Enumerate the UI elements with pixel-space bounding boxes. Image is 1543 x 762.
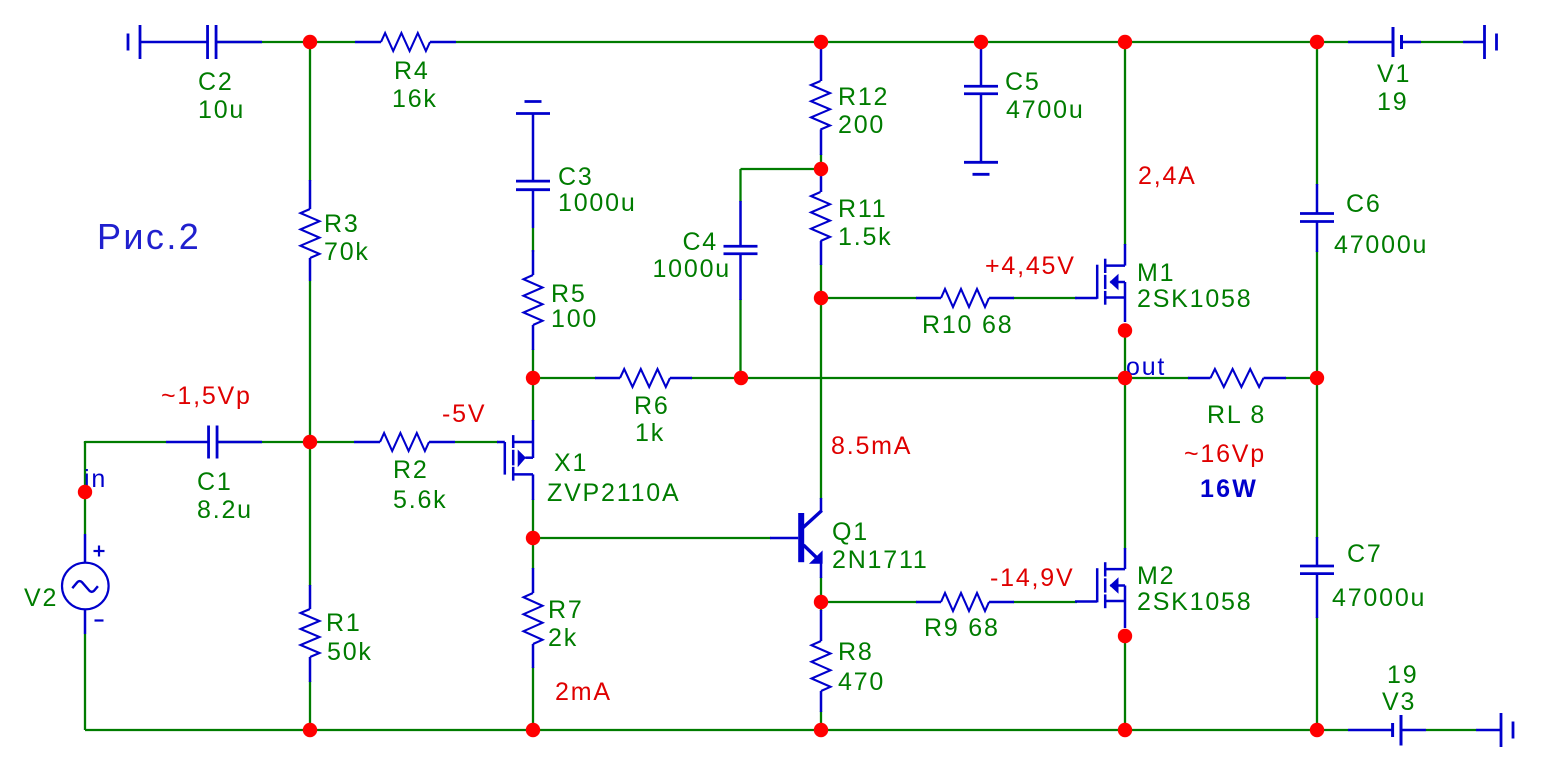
svg-text:1000u: 1000u bbox=[558, 189, 637, 217]
junction bottom rail at C7 bbox=[1310, 723, 1324, 737]
node out label bbox=[1126, 353, 1166, 381]
svg-text:100: 100 bbox=[551, 305, 598, 333]
svg-text:M2: M2 bbox=[1137, 562, 1175, 590]
resistor R1 bbox=[301, 585, 373, 682]
svg-text:5.6k: 5.6k bbox=[393, 486, 447, 514]
resistor R11 bbox=[811, 172, 892, 265]
svg-text:47000u: 47000u bbox=[1334, 231, 1428, 259]
transistor Q1 2N1711 npn bbox=[770, 498, 929, 578]
svg-text:R4: R4 bbox=[394, 57, 430, 85]
capacitor C6 bbox=[1300, 184, 1428, 259]
svg-text:C6: C6 bbox=[1346, 190, 1382, 218]
svg-text:8.2u: 8.2u bbox=[197, 496, 253, 524]
svg-text:2N1711: 2N1711 bbox=[832, 546, 929, 574]
wire X1 drain to Q1 base y=538 bbox=[533, 537, 771, 539]
node in label and junction bbox=[78, 465, 107, 499]
svg-text:R3: R3 bbox=[324, 210, 360, 238]
svg-text:-5V: -5V bbox=[442, 400, 486, 428]
junction bottom rail at M2 bbox=[1118, 723, 1132, 737]
svg-text:R7: R7 bbox=[548, 596, 584, 624]
resistor R9 bbox=[916, 593, 1014, 642]
resistor R8 bbox=[812, 610, 886, 712]
svg-text:X1: X1 bbox=[554, 449, 588, 477]
svg-text:50k: 50k bbox=[327, 638, 373, 666]
annotation 16W bbox=[1200, 475, 1258, 503]
capacitor C2 bbox=[198, 25, 262, 124]
svg-text:47000u: 47000u bbox=[1332, 584, 1426, 612]
resistor R6 bbox=[595, 369, 692, 447]
capacitor C4 bbox=[652, 201, 757, 300]
svg-text:R12: R12 bbox=[838, 83, 889, 111]
junction node X1 drain / Q1 base bbox=[526, 531, 540, 545]
wire R10 gate drive y=298 bbox=[821, 297, 1077, 299]
resistor R5 bbox=[524, 250, 599, 350]
junction top rail at C6 bbox=[1310, 35, 1324, 49]
junction M2 source bbox=[1118, 629, 1132, 643]
voltage source V2 sine bbox=[24, 534, 109, 634]
wire left input branch x=85 bbox=[84, 442, 86, 730]
capacitor C7 bbox=[1300, 537, 1426, 618]
svg-text:Q1: Q1 bbox=[832, 518, 869, 546]
junction RL right / C6 / C7 bbox=[1310, 371, 1324, 385]
svg-text:R2: R2 bbox=[393, 456, 429, 484]
svg-text:C7: C7 bbox=[1347, 540, 1383, 568]
svg-text:~16Vp: ~16Vp bbox=[1184, 440, 1266, 468]
svg-text:Рис.2: Рис.2 bbox=[97, 216, 201, 257]
svg-text:-14,9V: -14,9V bbox=[990, 564, 1074, 592]
resistor R12 bbox=[811, 49, 889, 155]
battery V3 bbox=[1348, 661, 1426, 746]
svg-text:2SK1058: 2SK1058 bbox=[1137, 285, 1252, 313]
capacitor C1 bbox=[166, 426, 262, 525]
annotation 8.5mA bbox=[831, 432, 912, 460]
svg-text:1000u: 1000u bbox=[652, 255, 731, 283]
svg-text:1k: 1k bbox=[635, 419, 665, 447]
resistor R10 bbox=[916, 289, 1014, 339]
junction node R12/R11/C4 bbox=[814, 162, 828, 176]
wire output column x=1125 bbox=[1124, 42, 1126, 730]
svg-text:200: 200 bbox=[838, 111, 885, 139]
svg-text:8.5mA: 8.5mA bbox=[831, 432, 912, 460]
svg-text:ZVP2110A: ZVP2110A bbox=[547, 479, 680, 507]
svg-text:C3: C3 bbox=[558, 163, 594, 191]
wire bias divider x=310 bbox=[309, 42, 311, 730]
port terminal bottom-right bbox=[1476, 713, 1513, 747]
svg-text:1.5k: 1.5k bbox=[838, 223, 892, 251]
junction bottom rail at R1 bbox=[303, 723, 317, 737]
annotation 2mA bbox=[555, 678, 612, 706]
svg-text:C5: C5 bbox=[1005, 68, 1041, 96]
svg-text:R10 68: R10 68 bbox=[922, 311, 1013, 339]
figure caption Рис.2 bbox=[97, 216, 201, 257]
ground below C5 bbox=[964, 162, 998, 174]
svg-text:M1: M1 bbox=[1137, 259, 1175, 287]
wire R9 gate drive y=602 bbox=[821, 601, 1077, 603]
svg-text:R6: R6 bbox=[634, 392, 670, 420]
junction top rail at M1 bbox=[1118, 35, 1132, 49]
resistor R2 bbox=[354, 433, 455, 514]
wire C1 to R2 to X1 gate y=442 bbox=[218, 441, 498, 443]
junction node Q1 emitter / R9 / R8 bbox=[814, 595, 828, 609]
svg-text:2k: 2k bbox=[548, 624, 578, 652]
junction M1 source bbox=[1118, 323, 1132, 337]
junction node C1/R3/R2 bbox=[303, 435, 317, 449]
svg-text:RL 8: RL 8 bbox=[1207, 401, 1266, 429]
svg-text:R11: R11 bbox=[838, 195, 887, 223]
wire input top segment y=442 bbox=[85, 441, 166, 443]
svg-text:16W: 16W bbox=[1200, 475, 1258, 503]
svg-text:+4,45V: +4,45V bbox=[985, 252, 1076, 280]
capacitor C5 bbox=[964, 49, 1085, 162]
junction bottom rail at R8 bbox=[814, 723, 828, 737]
svg-text:R1: R1 bbox=[326, 609, 362, 637]
svg-text:470: 470 bbox=[838, 668, 885, 696]
battery V1 bbox=[1348, 27, 1421, 116]
junction node R5/R6/X1 bbox=[526, 371, 540, 385]
junction node R11/R10/Q1 bbox=[814, 291, 828, 305]
resistor R7 bbox=[524, 568, 584, 668]
svg-text:2mA: 2mA bbox=[555, 678, 612, 706]
junction top rail at R12 bbox=[814, 35, 828, 49]
annotation +4,45V bbox=[985, 252, 1076, 280]
svg-text:4700u: 4700u bbox=[1006, 96, 1085, 124]
transistor M1 2SK1058 n-mosfet bbox=[1075, 244, 1252, 322]
wire top supply rail y=42 bbox=[217, 41, 1348, 43]
wire out node to RL y=378 bbox=[1125, 377, 1317, 379]
resistor RL load bbox=[1188, 369, 1286, 429]
port input terminal top-left bbox=[128, 25, 207, 59]
resistor R3 bbox=[301, 180, 370, 281]
svg-text:~1,5Vp: ~1,5Vp bbox=[161, 382, 252, 410]
wire R12-R11 tap to C4 y=169 bbox=[741, 168, 822, 170]
wire V1 to right terminal bbox=[1421, 41, 1463, 43]
annotation ~1,5Vp bbox=[161, 382, 252, 410]
svg-text:V1: V1 bbox=[1377, 60, 1411, 88]
wire C4 branch x=740.5 bbox=[739, 169, 741, 378]
svg-text:2SK1058: 2SK1058 bbox=[1137, 588, 1252, 616]
svg-text:R8: R8 bbox=[838, 638, 874, 666]
junction out node bbox=[1118, 371, 1132, 385]
capacitor C3 bbox=[516, 163, 637, 228]
annotation 2,4A bbox=[1138, 162, 1197, 190]
junction top rail at R3 bbox=[303, 35, 317, 49]
svg-text:2,4A: 2,4A bbox=[1138, 162, 1197, 190]
wire R12/R11/Q1/R8 column x=821 bbox=[820, 154, 822, 730]
annotation ~16Vp bbox=[1184, 440, 1266, 468]
svg-text:19: 19 bbox=[1377, 88, 1408, 116]
svg-text:R9 68: R9 68 bbox=[924, 614, 1000, 642]
svg-text:V3: V3 bbox=[1382, 688, 1416, 716]
wire bottom rail y=730 bbox=[85, 729, 1348, 731]
svg-text:C4: C4 bbox=[682, 228, 718, 256]
annotation -5V bbox=[442, 400, 486, 428]
svg-text:R5: R5 bbox=[551, 280, 587, 308]
wire C6/C7 column x=1317 bbox=[1316, 42, 1318, 730]
annotation -14,9V bbox=[990, 564, 1074, 592]
svg-text:19: 19 bbox=[1387, 661, 1418, 689]
svg-text:V2: V2 bbox=[24, 584, 58, 612]
port terminal top-right bbox=[1463, 25, 1497, 59]
transistor X1 ZVP2110A p-mosfet bbox=[497, 420, 680, 507]
junction bottom rail at R7 bbox=[526, 723, 540, 737]
junction top rail at C5 bbox=[974, 35, 988, 49]
transistor M2 2SK1058 n-mosfet bbox=[1075, 548, 1252, 628]
resistor R4 bbox=[355, 33, 456, 113]
wire mid horizontal y=378 node to out bbox=[533, 377, 1125, 379]
svg-text:10u: 10u bbox=[198, 96, 245, 124]
svg-text:16k: 16k bbox=[392, 85, 438, 113]
svg-text:C1: C1 bbox=[197, 468, 233, 496]
wire V3 to right terminal bbox=[1426, 729, 1476, 731]
wire C3/R5/X1/R7 column x=533 bbox=[532, 228, 534, 730]
svg-text:C2: C2 bbox=[198, 68, 234, 96]
port terminal above C3 bbox=[516, 102, 550, 182]
svg-text:70k: 70k bbox=[324, 238, 370, 266]
junction node C4 bottom bbox=[734, 371, 748, 385]
